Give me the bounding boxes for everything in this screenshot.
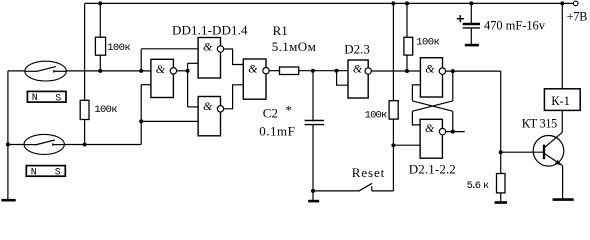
wire R1 to D2.3 [299,70,348,72]
svg-text:5.1мОм: 5.1мОм [272,39,316,54]
wire cross right vertical upper [452,71,454,101]
switch Reset blade and contacts [313,183,393,191]
node C2/reset/ground junction [311,189,315,193]
node rail/relay junction [560,1,564,5]
wire DD1.3 upper input [188,106,199,108]
node base/R 5.6k junction [499,150,503,154]
gate D2.3 output circle [365,68,371,74]
wire base column from D2.2 output [500,71,502,173]
wire DD1.3 lower input [141,120,198,122]
transistor VT1 emitter arrow [555,160,561,165]
svg-text:D2.1-2.2: D2.1-2.2 [409,162,456,177]
wire DD1.4 output to R1 [269,70,279,72]
node D2.2 output/cross junction [451,69,455,73]
reed switch SF2 contacts [24,140,64,146]
wire DD1.2 lower input [188,62,199,64]
node wire/D2.3 lower input junction [335,69,339,73]
wire R3 bottom to D2.2 input wire [406,55,408,71]
svg-text:D2.3: D2.3 [344,41,370,56]
wire to ground under C2 [312,191,314,201]
wire R1 bottom to wire1 [99,55,101,71]
wire rail-left-end down to R2 [84,3,86,100]
node wire1/riser junction [139,69,143,73]
node R2/wire2 junction [83,143,87,147]
svg-text:S: S [55,93,61,104]
transistor VT1 collector [545,132,563,147]
svg-text:R1: R1 [273,23,288,38]
wire1 right segment to DD1.1 [66,70,151,72]
wire rail to C3 [470,3,472,23]
svg-text:&: & [425,62,435,76]
transistor VT1 circle [533,136,564,167]
wire riser wire2 up [140,85,142,145]
gate DD1.1 body [151,59,174,97]
wire1 left segment [8,70,25,72]
wire D2.3 lower input L [337,71,348,86]
magnet 1 box [27,91,66,102]
magnet 2 box [26,166,65,177]
svg-text:0.1mF: 0.1mF [259,124,295,139]
terminal +7V open circle [573,1,578,6]
resistor R 5.6k body [497,174,506,193]
wire C2 top lead [312,71,314,120]
wire rail to R3 top [406,3,408,37]
wire rail to relay K-1 [561,3,563,88]
wire relay to collector [561,110,563,132]
node left vertical/wire2 junction [6,143,10,147]
svg-text:&: & [353,62,363,76]
gate DD1.4 body [243,59,266,99]
wire D2.1 lower input [393,144,420,146]
svg-text:+7В: +7В [567,9,588,23]
ground under C3 [465,44,479,47]
wire D2.1 output stub [446,131,465,133]
node riser/DD1.3 input junction [139,119,143,123]
svg-text:N: N [32,93,38,104]
resistor R 100k #4 [389,101,398,119]
svg-text:&: & [425,121,435,135]
wire C3 to ground [470,28,472,44]
node wire/C2 junction [311,69,315,73]
wire cross left vertical upper with hook to D2.2 lower input [412,85,420,101]
wire cross left vertical lower with hook to D2.1 upper input [412,111,420,125]
svg-text:К-1: К-1 [551,94,570,108]
top +7V rail [85,2,573,4]
svg-text:S: S [55,168,61,179]
reed switch SF1 ellipse [25,61,67,81]
wire R2 bottom to wire2 [84,120,86,145]
wire C2 bottom lead [312,125,314,191]
wire rail to R1 top [99,3,101,37]
node rail/C3 junction [469,1,473,5]
wire base [501,151,543,153]
ground under R 5.6k [495,201,508,204]
wire DD1.2 upper input [141,48,198,50]
svg-text:DD1.1-DD1.4: DD1.1-DD1.4 [172,22,248,37]
ground under C2 [308,200,319,203]
capacitor C2 plates [305,121,325,125]
wire2 left segment [8,144,24,146]
svg-text:100к: 100к [365,109,388,121]
relay K-1 box [544,89,580,111]
wire R4 bottom down to reset [392,119,394,191]
wire riser wire1 to DD1.2 upper input [140,49,142,71]
svg-text:КТ 315: КТ 315 [522,117,558,131]
gate DD1.1 output circle [170,68,176,74]
resistor R1 body [280,67,299,75]
gate DD1.4 output circle [263,68,269,74]
svg-text:5.6 к: 5.6 к [467,180,490,192]
wire DD1.1 output [177,70,188,72]
svg-text:100к: 100к [107,42,131,54]
wire DD1.2 output to DD1.4 [224,49,244,65]
node D2.1 output/cross junction [451,130,455,134]
transistor VT1 emitter [545,154,563,166]
wire emitter to ground [562,166,564,199]
svg-text:C2: C2 [263,106,278,121]
wire2 right segment [64,144,141,146]
node rail/R1 junction [98,1,102,5]
gate D2.3 body [348,60,368,98]
wire cross right vertical lower [452,111,454,131]
gate DD1.2 body [198,38,220,79]
svg-text:470 mF-16v: 470 mF-16v [484,19,546,33]
wire DD1.3 output to DD1.4 [224,85,244,109]
gate DD1.2 output circle [217,46,223,52]
reed switch SF1 contacts [25,67,66,73]
node rail/reset vertical junction [391,1,395,5]
wire R 5.6k to ground [500,193,502,202]
capacitor C3 plates [463,23,480,26]
svg-text:&: & [248,62,258,76]
node DD1.1 output split [186,69,190,73]
gate D2.1 output circle [439,128,445,134]
capacitor C3 plus sign [457,15,464,22]
wire D2.3 output to D2.2 [371,70,420,72]
ground left [1,199,15,202]
wire cross diagonal 2 [412,101,452,111]
gate DD1.3 body [198,97,220,136]
resistor R 100k #1 [95,37,105,55]
svg-text:&: & [203,99,213,113]
svg-text:100к: 100к [416,36,440,48]
wire DD1.1 output riser [187,63,189,107]
wire D2.2 output to transistor column [446,70,501,72]
resistor R 100k #2 [80,100,89,119]
svg-text:*: * [286,103,293,118]
svg-text:&: & [156,62,166,76]
gate D2.2 output circle [439,68,445,74]
ground under emitter [553,198,574,201]
resistor R 100k #3 [404,37,413,55]
svg-text:&: & [203,39,213,53]
node reset vertical/D2.1 input junction [391,143,395,147]
node rail/R 100k #3 junction [405,1,409,5]
gate D2.1 body [420,119,442,158]
wire left common vertical [7,71,9,200]
svg-text:N: N [31,167,37,178]
gate D2.2 body [420,58,442,97]
transistor VT1 base bar [543,145,545,160]
svg-text:Reset: Reset [352,165,385,180]
wire rail down to R 100k #4 [392,3,394,100]
wire DD1.1 lower input [141,84,151,86]
reed switch SF2 ellipse [24,134,64,154]
svg-text:100к: 100к [94,104,117,116]
gate DD1.3 output circle [217,106,223,112]
node R1/wire1 junction [98,69,102,73]
wire cross diagonal 1 [412,101,452,111]
node wire/R 100k #3 junction [405,69,409,73]
